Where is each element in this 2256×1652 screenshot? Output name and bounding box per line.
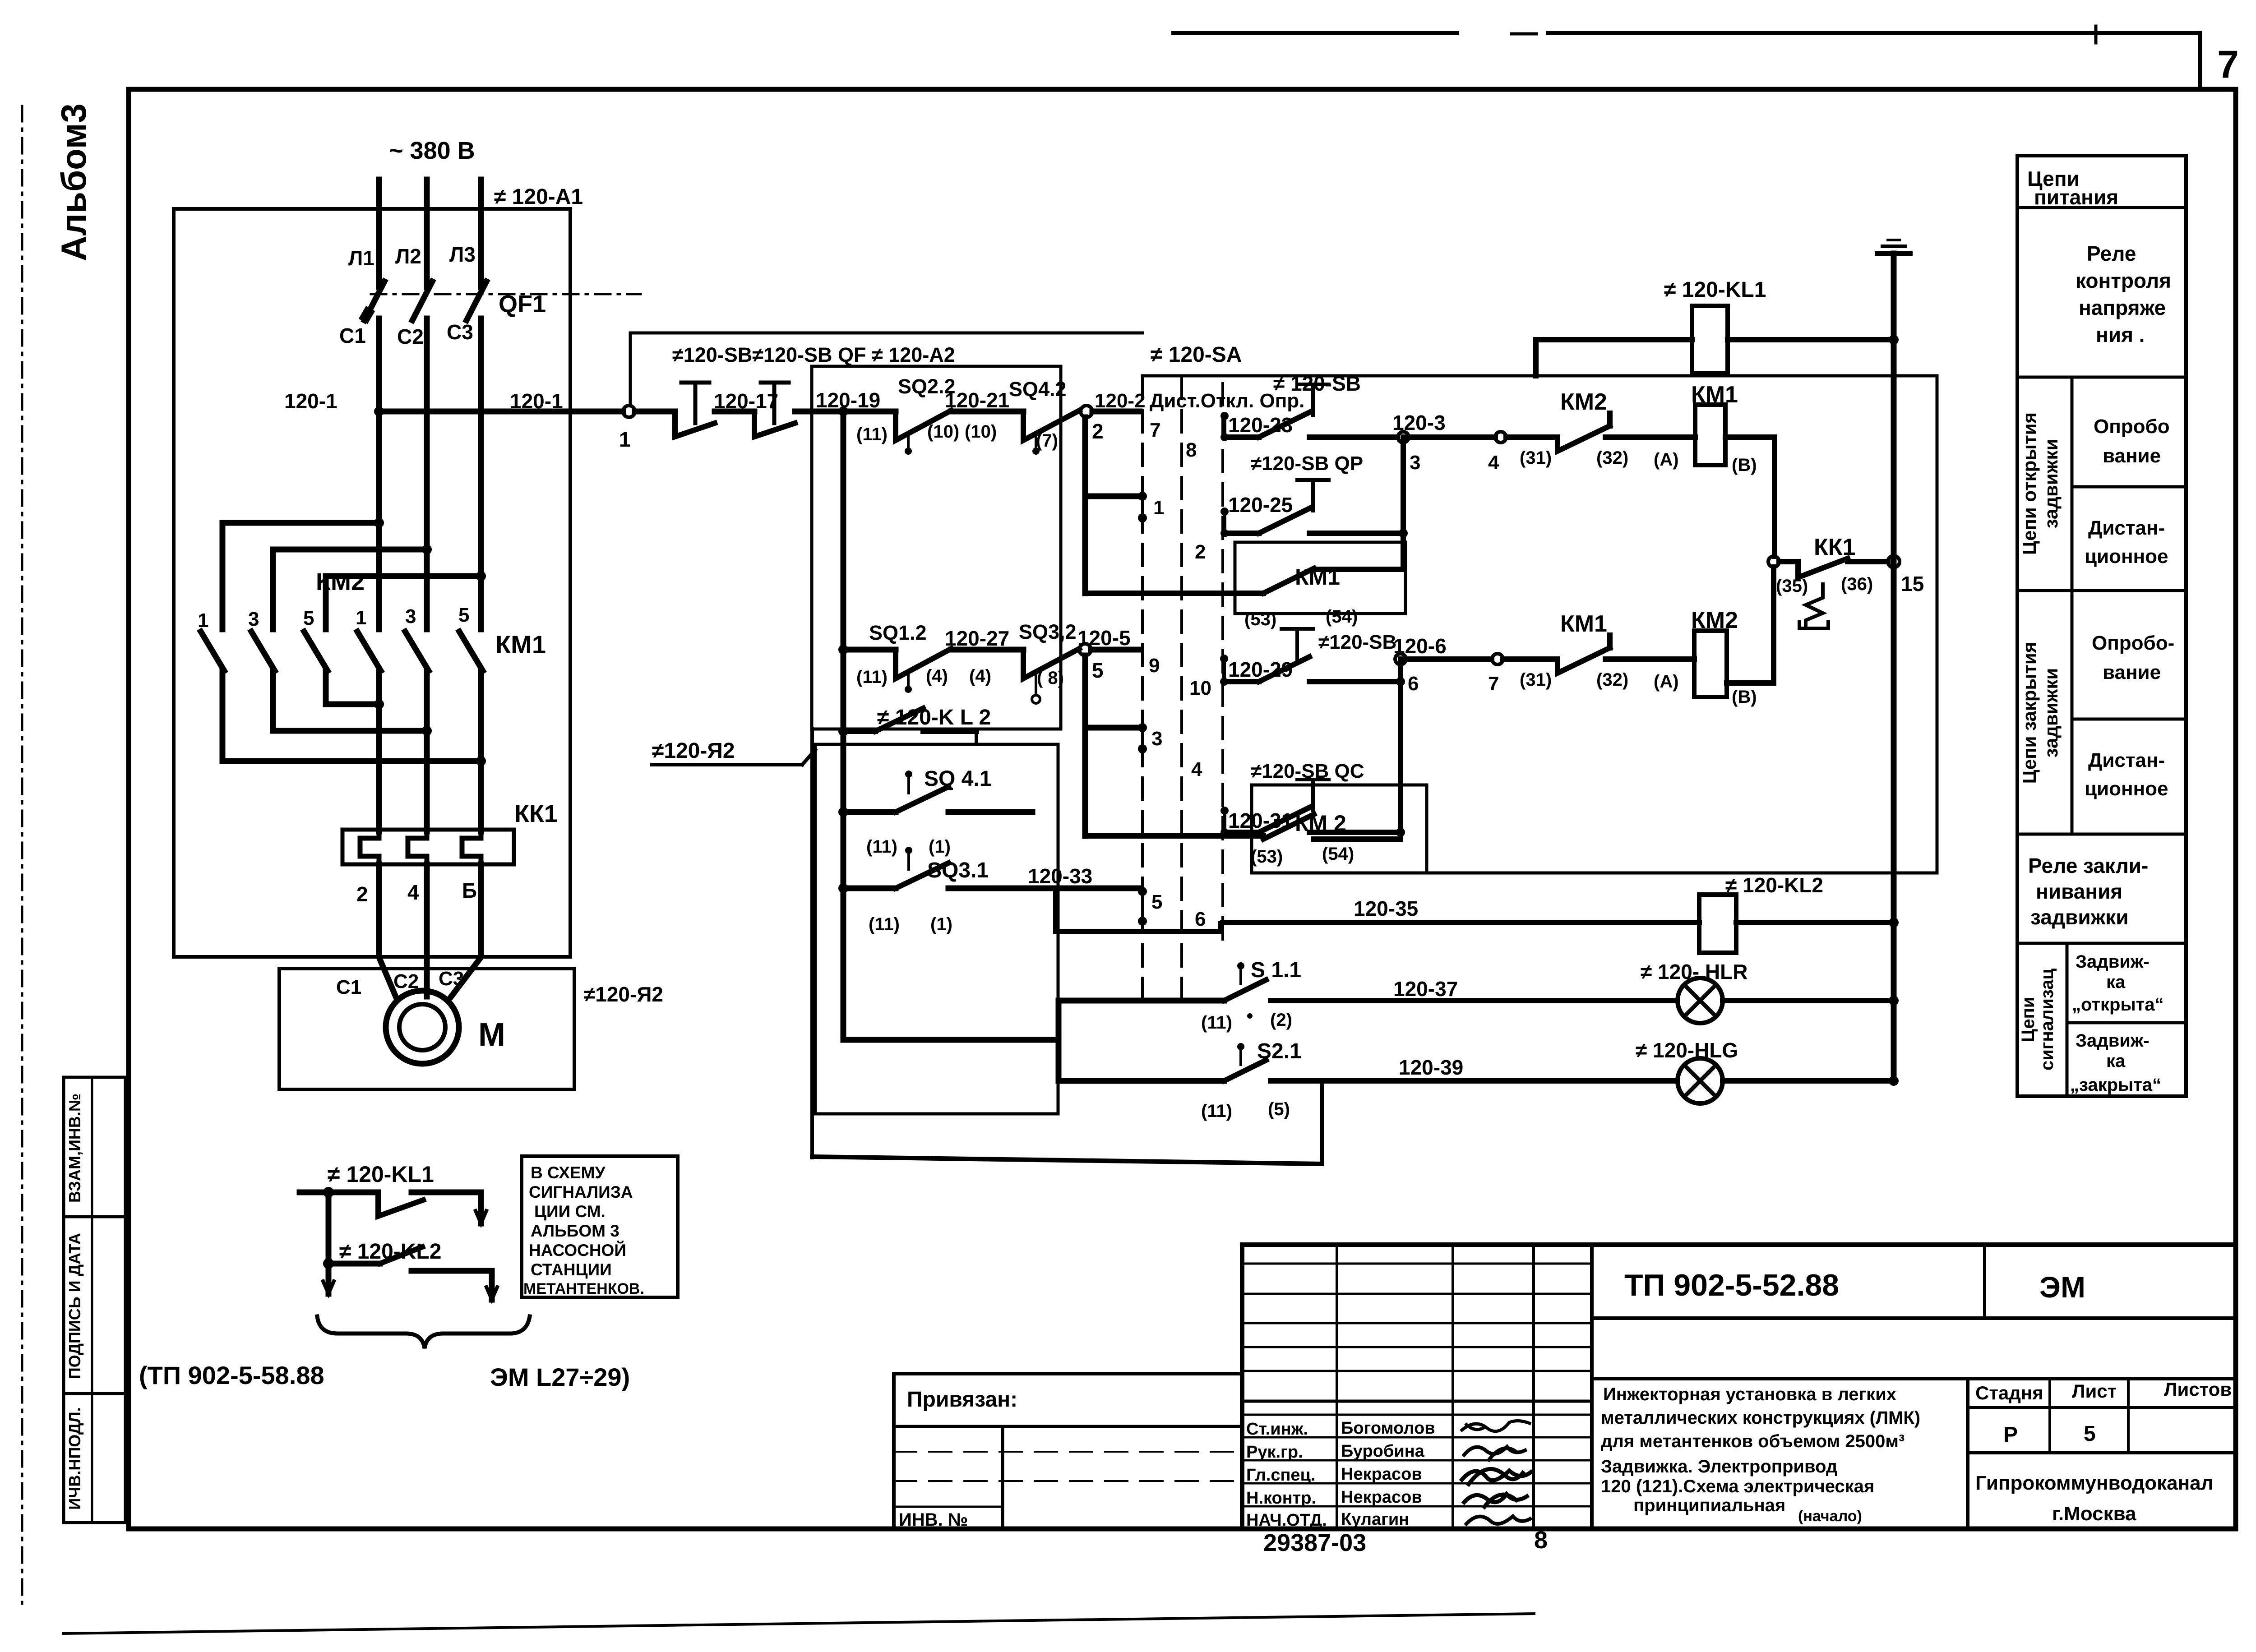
svg-text:S 1.1: S 1.1: [1251, 958, 1301, 982]
limit switch SQ3.1: [838, 883, 848, 893]
crossover wire km2 top 1: [222, 523, 379, 629]
svg-text:(А): (А): [1654, 450, 1679, 470]
svg-text:ния .: ния .: [2096, 323, 2145, 346]
svg-text:(2): (2): [1270, 1010, 1292, 1030]
node 5: [1079, 644, 1091, 655]
svg-text:6: 6: [1195, 908, 1206, 930]
privjazan block: [894, 1374, 1242, 1529]
svg-text:Опробо-: Опробо-: [2092, 632, 2174, 654]
svg-text:(начало): (начало): [1798, 1508, 1862, 1525]
svg-text:7: 7: [1488, 673, 1499, 695]
svg-text:3: 3: [248, 608, 259, 630]
svg-text:Задвижка. Электропривод: Задвижка. Электропривод: [1601, 1457, 1837, 1477]
svg-text:ИЧВ.НПОДЛ.: ИЧВ.НПОДЛ.: [65, 1407, 84, 1509]
SQ22 box: [812, 366, 1061, 729]
breaker QF1: [365, 281, 384, 320]
svg-text:7: 7: [1150, 419, 1160, 441]
svg-text:120-25: 120-25: [1228, 493, 1293, 517]
crossover wire bottom middle: [273, 671, 427, 731]
svg-text:1: 1: [356, 607, 366, 629]
svg-text:4: 4: [407, 881, 419, 904]
crossover wire bottom outer: [222, 671, 481, 761]
svg-text:≠ 120-А1: ≠ 120-А1: [494, 185, 583, 209]
svg-text:(В): (В): [1732, 687, 1757, 707]
svg-text:КМ2: КМ2: [1560, 389, 1607, 415]
power section box: [174, 209, 570, 957]
node3 vertical: [1401, 437, 1406, 569]
top revision mark line: [1173, 31, 1457, 35]
svg-text:Н.контр.: Н.контр.: [1246, 1489, 1316, 1508]
svg-text:(35): (35): [1776, 576, 1808, 596]
svg-text:Цепи открытия: Цепи открытия: [2019, 412, 2040, 555]
svg-text:5: 5: [303, 607, 314, 629]
svg-text:ТП 902-5-52.88: ТП 902-5-52.88: [1624, 1268, 1839, 1302]
svg-text:задвижки: задвижки: [2040, 439, 2062, 529]
svg-text:СТАНЦИИ: СТАНЦИИ: [531, 1260, 612, 1279]
svg-text:(11): (11): [866, 837, 897, 857]
wire SQ3.1 to 120-35 link: [1056, 888, 1221, 932]
svg-text:металлических конструкциях (ЛМ: металлических конструкциях (ЛМК): [1601, 1408, 1920, 1428]
svg-text:≠120-Я2: ≠120-Я2: [584, 983, 663, 1006]
svg-text:1: 1: [1153, 497, 1164, 519]
phase wires to thermal relay: [376, 671, 382, 831]
svg-text:(32): (32): [1596, 448, 1628, 468]
svg-text:КМ1: КМ1: [1560, 611, 1607, 637]
terminal strip dashed line 2: [1180, 377, 1183, 1006]
terminal strip dashed line 3: [1221, 383, 1224, 950]
svg-text:Задвиж-: Задвиж-: [2076, 952, 2150, 972]
svg-text:Некрасов: Некрасов: [1341, 1488, 1422, 1507]
svg-text:120-21: 120-21: [945, 388, 1009, 412]
switch S2.1: [1059, 1078, 1224, 1084]
wire 120-39: [1271, 1078, 1678, 1084]
inner box SQ4.1 SQ3.1: [815, 744, 1058, 1114]
node 1: [623, 406, 635, 417]
control circuit left part: [284, 333, 1304, 1114]
svg-text:„закрыта“: „закрыта“: [2070, 1075, 2161, 1095]
button contact SB2: [761, 381, 789, 385]
svg-text:(31): (31): [1520, 670, 1552, 690]
crossover wire bottom inner: [326, 671, 379, 704]
svg-text:ка: ка: [2106, 1051, 2126, 1071]
svg-text:Дистан-: Дистан-: [2088, 749, 2165, 771]
svg-text:(7): (7): [1036, 431, 1058, 451]
box 120-A1 boundary: [1142, 376, 1937, 873]
svg-text:≠120-SB: ≠120-SB: [1318, 631, 1396, 653]
svg-text:~ 380 В: ~ 380 В: [389, 137, 475, 164]
wire KM1 coil to KK1: [1725, 437, 1775, 556]
link pin 1: [1085, 494, 1138, 499]
svg-text:SQ4.2: SQ4.2: [1009, 378, 1067, 401]
right function table: circuit purpose column: [2017, 156, 2186, 1096]
svg-text:5: 5: [2084, 1422, 2096, 1446]
svg-text:КМ1: КМ1: [495, 630, 546, 659]
motor box: [279, 969, 574, 1089]
svg-text:(11): (11): [856, 425, 888, 444]
svg-text:SQ1.2: SQ1.2: [869, 621, 927, 644]
svg-text:ционное: ционное: [2085, 545, 2168, 568]
svg-text:Некрасов: Некрасов: [1341, 1465, 1422, 1484]
svg-text:Листов: Листов: [2164, 1379, 2232, 1400]
svg-text:1: 1: [198, 609, 208, 632]
svg-text:(1): (1): [930, 914, 952, 934]
wire 120-27: [951, 647, 1023, 653]
svg-text:питания: питания: [2034, 185, 2118, 209]
bottom signal section: [812, 729, 1899, 1164]
closing vertical: [1398, 659, 1403, 839]
svg-text:Буробина: Буробина: [1341, 1442, 1425, 1461]
svg-text:≠120-SB≠120-SB QF ≠ 120-А2: ≠120-SB≠120-SB QF ≠ 120-А2: [672, 343, 955, 366]
node 7: [1492, 654, 1503, 664]
svg-text:10: 10: [1189, 677, 1211, 699]
svg-text:5: 5: [458, 604, 469, 626]
svg-text:QF1: QF1: [499, 291, 546, 318]
svg-text:9: 9: [1149, 655, 1160, 677]
svg-text:SQ 4.1: SQ 4.1: [924, 767, 991, 791]
svg-text:2: 2: [356, 882, 368, 906]
svg-text:КК1: КК1: [514, 800, 558, 827]
svg-text:Альбом3: Альбом3: [54, 103, 93, 261]
title block: [894, 1245, 2233, 1530]
svg-text:Дистан-: Дистан-: [2088, 517, 2165, 539]
wire KM2 coil to KK1: [1727, 567, 1774, 683]
svg-text:120-39: 120-39: [1399, 1056, 1463, 1079]
svg-text:Ст.инж.: Ст.инж.: [1246, 1420, 1308, 1439]
svg-text:5: 5: [1151, 891, 1162, 913]
junction 120-1 tap: [374, 406, 384, 416]
motor M: [386, 991, 459, 1064]
svg-text:120-19: 120-19: [816, 388, 880, 412]
phase wires below QF1: [376, 318, 382, 629]
wire 120-33: [948, 886, 1140, 891]
button 120-23 terminal: [1220, 412, 1229, 420]
limit switch SQ4.1: [838, 807, 848, 817]
node 4: [1495, 432, 1506, 443]
signal box outline: [812, 1157, 1322, 1164]
node 15: [1888, 556, 1900, 568]
svg-text:вание: вание: [2103, 661, 2161, 683]
svg-text:120-27: 120-27: [945, 627, 1009, 650]
limit switch SQ1.2 row: [838, 645, 848, 655]
svg-text:ЭМ: ЭМ: [2039, 1270, 2085, 1304]
svg-text:контроля: контроля: [2076, 269, 2171, 292]
svg-text:120-1: 120-1: [284, 389, 337, 413]
svg-text:3: 3: [405, 605, 416, 628]
svg-text:СИГНАЛИЗА: СИГНАЛИЗА: [529, 1183, 633, 1201]
svg-text:(53): (53): [1251, 847, 1283, 867]
svg-text:(А): (А): [1654, 672, 1679, 692]
svg-text:(54): (54): [1322, 844, 1354, 864]
phase L1 wire: [376, 180, 382, 287]
svg-text:29387-03: 29387-03: [1263, 1529, 1366, 1556]
svg-text:3: 3: [1151, 728, 1162, 750]
svg-text:Гипрокоммунводоканал: Гипрокоммунводоканал: [1975, 1472, 2214, 1494]
button contact SB1: [635, 409, 675, 415]
svg-text:≠120-SB QP: ≠120-SB QP: [1251, 452, 1363, 475]
control bus vertical: [841, 411, 846, 1040]
wire 120-21: [951, 409, 1023, 415]
svg-text:ПОДПИСЬ И ДАТА: ПОДПИСЬ И ДАТА: [65, 1233, 84, 1379]
svg-text:6: 6: [1408, 673, 1419, 695]
node2 drop wire: [1082, 417, 1088, 593]
svg-text:(54): (54): [1326, 607, 1358, 627]
svg-text:(32): (32): [1596, 670, 1628, 690]
node 2: [1081, 406, 1092, 417]
svg-text:ВЗАМ,ИНВ.№: ВЗАМ,ИНВ.№: [65, 1094, 84, 1203]
svg-text:( 8): ( 8): [1037, 668, 1064, 688]
svg-text:задвижки: задвижки: [2030, 905, 2129, 929]
junction bus tap: [838, 406, 848, 416]
svg-text:Л2: Л2: [395, 245, 421, 268]
svg-text:120-35: 120-35: [1354, 897, 1418, 920]
svg-text:Кулагин: Кулагин: [1341, 1510, 1409, 1529]
thermal contact KK1: [1768, 556, 1779, 567]
svg-text:Цепи: Цепи: [2018, 997, 2038, 1043]
svg-text:1: 1: [619, 428, 631, 451]
svg-text:(11): (11): [1201, 1013, 1232, 1033]
switch S1.1: [1059, 998, 1224, 1004]
svg-text:вание: вание: [2103, 445, 2161, 467]
svg-text:сигнализац: сигнализац: [2037, 969, 2057, 1071]
svg-text:ИНВ. №: ИНВ. №: [899, 1510, 968, 1530]
svg-text:С1: С1: [336, 976, 361, 998]
svg-text:(31): (31): [1520, 448, 1552, 468]
svg-text:(11): (11): [869, 914, 900, 934]
svg-text:(36): (36): [1841, 574, 1873, 594]
svg-text:8: 8: [1534, 1527, 1548, 1554]
svg-text:ЭМ L27÷29): ЭМ L27÷29): [490, 1363, 630, 1391]
svg-text:Задвиж-: Задвиж-: [2076, 1031, 2150, 1051]
svg-text:(53): (53): [1244, 609, 1276, 629]
svg-text:Р: Р: [2003, 1423, 2018, 1447]
svg-text:КМ 2: КМ 2: [1295, 811, 1346, 836]
svg-text:120 (121).Схема электрическая: 120 (121).Схема электрическая: [1601, 1477, 1874, 1496]
svg-text:≠ 120-SА: ≠ 120-SА: [1151, 343, 1242, 367]
svg-text:С2: С2: [397, 325, 424, 348]
svg-text:„открыта“: „открыта“: [2072, 995, 2164, 1015]
svg-text:(11): (11): [1201, 1101, 1232, 1121]
svg-text:≠ 120-HLG: ≠ 120-HLG: [1636, 1038, 1738, 1062]
wire 120-37: [1271, 998, 1678, 1003]
svg-text:2: 2: [1195, 541, 1206, 563]
svg-text:Стадня: Стадня: [1975, 1382, 2043, 1403]
svg-text:≠ 120-KL1: ≠ 120-KL1: [1664, 278, 1766, 302]
svg-text:15: 15: [1901, 572, 1924, 595]
svg-text:5: 5: [1092, 659, 1104, 682]
svg-text:Реле закли-: Реле закли-: [2028, 854, 2148, 877]
svg-text:Богомолов: Богомолов: [1341, 1419, 1435, 1438]
svg-text:(ТП 902-5-58.88: (ТП 902-5-58.88: [139, 1361, 324, 1389]
button 120-31 terminal: [1220, 807, 1229, 815]
svg-text:120-37: 120-37: [1393, 977, 1458, 1001]
middle control section: [1085, 240, 1937, 1081]
svg-text:принципиальная: принципиальная: [1633, 1495, 1785, 1515]
svg-text:С3: С3: [447, 320, 473, 344]
wire 120-19: [795, 409, 896, 415]
svg-text:Опробо: Опробо: [2094, 415, 2170, 438]
button 120-25 terminal: [1220, 508, 1229, 516]
svg-text:С3: С3: [439, 968, 464, 990]
svg-text:(В): (В): [1732, 455, 1757, 475]
svg-text:≠ 120-KL1: ≠ 120-KL1: [328, 1162, 434, 1187]
link pin 3: [1085, 725, 1138, 731]
svg-text:120-5: 120-5: [1077, 626, 1131, 650]
svg-text:≠120-Я2: ≠120-Я2: [652, 739, 735, 763]
svg-text:напряже: напряже: [2079, 296, 2166, 319]
svg-text:8: 8: [1186, 439, 1197, 461]
button 120-29 terminal: [1220, 655, 1228, 663]
left margin stamp boxes: [64, 1077, 125, 1523]
svg-text:(1): (1): [929, 837, 951, 857]
svg-text:(11): (11): [856, 667, 888, 687]
svg-text:Гл.спец.: Гл.спец.: [1246, 1466, 1315, 1485]
aux contact KM1 self-hold: [1235, 542, 1405, 614]
crossover wire km2 top 3: [326, 576, 481, 629]
svg-text:Рук.гр.: Рук.гр.: [1246, 1443, 1303, 1462]
svg-text:Б: Б: [462, 879, 477, 902]
svg-text:АЛЬБОМ 3: АЛЬБОМ 3: [531, 1222, 619, 1240]
note box: [522, 1156, 678, 1297]
label box top: [630, 333, 1142, 406]
terminal strip dashed line 1: [1141, 377, 1144, 1006]
svg-text:(10): (10): [927, 422, 959, 442]
power circuit section: [174, 137, 663, 1089]
feed wire to S switches: [843, 1037, 1059, 1043]
svg-text:SQ3,2: SQ3,2: [1019, 620, 1077, 643]
svg-text:(10): (10): [965, 422, 997, 442]
svg-text:М: М: [478, 1017, 505, 1053]
motor feeder wires: [379, 864, 396, 997]
left page dash-dot line: [21, 106, 23, 1604]
svg-text:Л1: Л1: [348, 246, 374, 270]
ground bus vertical: [1891, 254, 1897, 1081]
aux contact KM2 self-hold: [1252, 785, 1427, 873]
svg-text:ЦИИ СМ.: ЦИИ СМ.: [534, 1202, 606, 1221]
svg-text:Цепи закрытия: Цепи закрытия: [2019, 642, 2040, 784]
svg-text:≠ 120-K L 2: ≠ 120-K L 2: [877, 706, 991, 729]
svg-text:(4): (4): [926, 666, 948, 686]
svg-text:Лист: Лист: [2072, 1380, 2117, 1402]
svg-text:С1: С1: [339, 324, 366, 347]
svg-text:Привязан:: Привязан:: [907, 1388, 1017, 1412]
bottom-left note group: [139, 1156, 678, 1391]
svg-text:нивания: нивания: [2036, 880, 2122, 903]
sheet number box 7: [2198, 33, 2202, 88]
svg-text:4: 4: [1488, 452, 1499, 474]
brace: [317, 1316, 530, 1348]
svg-text:3: 3: [1410, 452, 1420, 474]
svg-text:КМ2: КМ2: [316, 568, 365, 595]
handwritten signatures: [1462, 1421, 1530, 1431]
svg-text:Реле: Реле: [2087, 242, 2136, 265]
svg-text:(5): (5): [1268, 1099, 1290, 1119]
svg-text:ционное: ционное: [2085, 778, 2168, 800]
svg-text:(4): (4): [969, 666, 991, 686]
crossover wire km2 top 2: [273, 549, 427, 629]
svg-text:ка: ка: [2106, 972, 2126, 992]
svg-text:НАЧ.ОТД.: НАЧ.ОТД.: [1246, 1511, 1327, 1530]
svg-text:120-33: 120-33: [1028, 864, 1092, 888]
svg-text:г.Москва: г.Москва: [2052, 1503, 2136, 1525]
svg-text:4: 4: [1191, 758, 1202, 780]
svg-text:Инжекторная установка в легких: Инжекторная установка в легких: [1603, 1384, 1896, 1404]
svg-text:задвижки: задвижки: [2040, 668, 2062, 758]
svg-text:≠ 120-KL2: ≠ 120-KL2: [1725, 873, 1823, 897]
svg-text:МЕТАНТЕНКОВ.: МЕТАНТЕНКОВ.: [523, 1280, 644, 1297]
node5 drop wire: [1082, 655, 1088, 836]
svg-text:В СХЕМУ: В СХЕМУ: [531, 1163, 606, 1182]
svg-text:7: 7: [2217, 43, 2239, 86]
svg-text:2: 2: [1092, 420, 1104, 443]
wire 120-35: [1223, 920, 1699, 925]
ground symbol: [1877, 251, 1910, 256]
phase L2 wire: [424, 180, 430, 287]
svg-text:Л3: Л3: [449, 243, 476, 266]
svg-text:для метантенков объемом 2500м³: для метантенков объемом 2500м³: [1601, 1431, 1905, 1451]
svg-text:НАСОСНОЙ: НАСОСНОЙ: [529, 1241, 626, 1260]
phase L3 wire: [478, 180, 484, 287]
bottom scan edge line: [63, 1614, 1534, 1634]
